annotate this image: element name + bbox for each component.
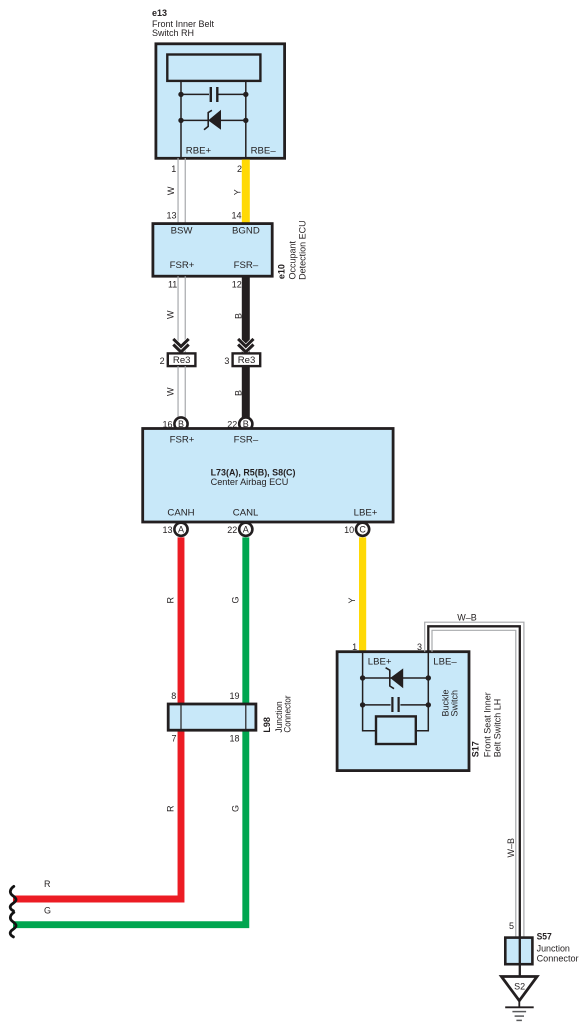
svg-text:e10: e10 — [276, 264, 286, 279]
junction connector L98 box — [168, 704, 256, 730]
connector e13 label — [152, 8, 215, 38]
svg-text:Detection ECU: Detection ECU — [297, 220, 307, 280]
svg-text:B: B — [233, 390, 243, 396]
svg-text:11: 11 — [168, 280, 177, 290]
svg-text:Connector: Connector — [282, 696, 292, 733]
svg-text:Switch RH: Switch RH — [152, 28, 194, 38]
svg-text:2: 2 — [237, 164, 242, 174]
svg-text:e13: e13 — [152, 8, 167, 18]
S17 capacitor plates — [392, 697, 398, 712]
svg-text:LBE–: LBE– — [433, 656, 457, 667]
svg-text:Belt Switch LH: Belt Switch LH — [492, 699, 502, 758]
svg-text:W: W — [166, 310, 176, 319]
svg-text:Switch: Switch — [450, 690, 460, 717]
svg-text:18: 18 — [229, 734, 239, 744]
svg-text:Connector: Connector — [537, 953, 579, 963]
S17 capacitor branch wires — [363, 704, 429, 706]
S17 zener diode branch wire — [363, 677, 429, 679]
wire W-B inner outline — [432, 630, 516, 937]
connector circle B pin22 — [239, 417, 252, 430]
svg-text:S17: S17 — [471, 741, 481, 757]
svg-text:Junction: Junction — [537, 943, 570, 953]
e13 internal right wire — [245, 81, 247, 158]
ground triangle S2 — [501, 977, 537, 1001]
wire B from Re3 to connector B22 — [242, 366, 250, 417]
wire R red CANH down through L98 and left to edge — [13, 537, 181, 899]
svg-text:19: 19 — [229, 691, 239, 701]
svg-text:8: 8 — [171, 691, 176, 701]
svg-text:G: G — [230, 805, 240, 812]
break squiggle on R wire — [10, 886, 16, 911]
svg-text:Y: Y — [347, 597, 357, 603]
ECU Center Airbag ECU box L73(A) R5(B) S8(C) — [143, 429, 393, 523]
S17 zener diode cathode bar with hooks — [386, 668, 394, 689]
svg-text:C: C — [359, 525, 366, 535]
svg-text:BSW: BSW — [171, 226, 194, 237]
svg-text:14: 14 — [231, 210, 241, 220]
svg-text:2: 2 — [160, 356, 165, 366]
wire W from Re3 to connector B16 — [178, 366, 185, 417]
svg-text:CANL: CANL — [233, 507, 259, 518]
svg-text:Occupant: Occupant — [288, 240, 298, 279]
switch e13 Front Inner Belt Switch RH box — [156, 44, 285, 159]
wire G green CANL down through L98 and left to edge — [13, 537, 246, 924]
wire Y yellow LBE+ down to S17 pin1 — [359, 537, 366, 653]
svg-text:R: R — [44, 879, 51, 889]
junction connector S57 box — [505, 938, 532, 965]
S17 internal right wire — [415, 653, 429, 731]
ground bar 4 — [516, 1019, 522, 1021]
svg-text:7: 7 — [171, 734, 176, 744]
svg-text:FSR–: FSR– — [234, 260, 259, 271]
shield block Re3 right — [233, 353, 261, 366]
svg-text:S2: S2 — [514, 981, 525, 991]
e13 zener diode branch wire — [181, 119, 246, 121]
switch S17 Front Seat Inner Belt Switch LH box — [337, 652, 469, 771]
svg-text:A: A — [178, 525, 184, 535]
svg-text:Y: Y — [232, 189, 242, 195]
svg-text:RBE–: RBE– — [251, 145, 277, 156]
S17 internal left wire — [363, 653, 377, 731]
wire Y from e13 pin2 to e10 pin14 — [242, 160, 250, 226]
wire W from e13 pin1 to e10 pin13 — [178, 158, 185, 224]
ground bar 2 — [512, 1011, 526, 1013]
connector circle A pin13 — [174, 523, 187, 536]
wire W from e10 pin11 to Re3 — [178, 276, 185, 353]
svg-text:A: A — [243, 525, 249, 535]
e13 capacitor C plates — [211, 87, 218, 102]
e13 internal switch contact rectangle — [167, 55, 260, 81]
svg-text:CANH: CANH — [167, 507, 194, 518]
svg-text:G: G — [230, 596, 240, 603]
svg-text:W: W — [166, 387, 176, 396]
svg-text:W: W — [166, 186, 176, 195]
svg-text:B: B — [233, 313, 243, 319]
connector circle B pin16 — [174, 417, 187, 430]
S17 zener diode triangle — [391, 669, 403, 687]
shield block Re3 left — [168, 353, 196, 366]
e13 capacitor branch wires — [181, 93, 246, 95]
ECU e10 Occupant Detection ECU box — [153, 224, 272, 277]
svg-text:13: 13 — [162, 525, 172, 535]
svg-text:L98: L98 — [262, 717, 272, 733]
break squiggle on G wire — [10, 912, 16, 937]
svg-text:R: R — [166, 805, 176, 812]
wire W-B outer outline from S17 pin3 over top to S57 — [425, 622, 524, 937]
svg-text:S57: S57 — [537, 932, 552, 942]
ground bar 1 — [505, 1006, 534, 1008]
wire B black from e10 pin12 to Re3 — [242, 276, 250, 353]
e13 internal left wire — [180, 81, 182, 158]
svg-text:W–B: W–B — [457, 612, 477, 622]
svg-text:R: R — [166, 597, 176, 604]
e13 zener diode cathode bar with hooks — [204, 110, 212, 129]
e13 zener diode triangle — [209, 111, 221, 129]
S57 pass-through wire — [519, 938, 521, 977]
svg-text:13: 13 — [166, 210, 176, 220]
S17 buckle switch contact rectangle — [376, 716, 416, 744]
connector circle C pin10 — [356, 523, 369, 536]
svg-text:Re3: Re3 — [238, 355, 256, 366]
svg-text:1: 1 — [171, 164, 176, 174]
L98 pass-through wire left — [180, 704, 182, 730]
L98 pass-through wire right — [245, 704, 247, 730]
svg-text:FSR+: FSR+ — [170, 260, 195, 271]
chevron arrows on W wire — [172, 335, 190, 356]
connector circle A pin22 — [239, 523, 252, 536]
svg-text:W–B: W–B — [506, 838, 516, 858]
wire W-B black stripe — [428, 626, 520, 937]
svg-text:FSR+: FSR+ — [170, 434, 195, 445]
svg-text:12: 12 — [232, 280, 242, 290]
svg-text:LBE+: LBE+ — [354, 507, 378, 518]
svg-text:22: 22 — [227, 525, 237, 535]
S17 junction dots — [360, 675, 365, 680]
svg-text:10: 10 — [344, 525, 354, 535]
svg-text:LBE+: LBE+ — [368, 656, 392, 667]
svg-text:FSR–: FSR– — [234, 434, 259, 445]
chevron arrows on B wire — [237, 335, 255, 356]
e13 junction dots — [178, 92, 183, 97]
svg-text:3: 3 — [224, 356, 229, 366]
svg-text:5: 5 — [509, 921, 514, 931]
svg-text:Re3: Re3 — [173, 355, 191, 366]
svg-text:BGND: BGND — [232, 226, 260, 237]
svg-text:RBE+: RBE+ — [186, 145, 212, 156]
svg-text:G: G — [44, 906, 51, 916]
svg-text:Center Airbag ECU: Center Airbag ECU — [211, 477, 289, 487]
ground stem — [518, 1001, 520, 1008]
ground bar 3 — [515, 1015, 524, 1017]
svg-text:Front Seat Inner: Front Seat Inner — [483, 692, 493, 757]
